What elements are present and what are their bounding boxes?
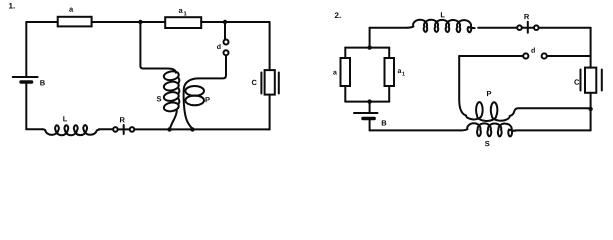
svg-text:d: d [217,43,221,51]
svg-text:L: L [63,114,68,123]
svg-text:P: P [205,95,210,104]
svg-text:d: d [531,47,535,55]
svg-text:1.: 1. [9,1,16,10]
svg-text:B: B [40,78,46,87]
svg-text:a: a [69,5,74,14]
svg-text:a: a [397,68,401,75]
svg-text:B: B [381,119,387,128]
svg-text:1: 1 [402,72,405,78]
svg-text:R: R [119,115,125,124]
svg-text:S: S [485,139,490,148]
svg-text:S: S [156,94,161,103]
svg-text:a: a [333,70,337,77]
svg-text:P: P [486,89,491,98]
svg-text:2.: 2. [335,11,342,20]
svg-text:R: R [524,12,530,21]
svg-text:C: C [251,78,257,87]
svg-text:C: C [574,78,580,87]
svg-text:L: L [440,10,445,19]
